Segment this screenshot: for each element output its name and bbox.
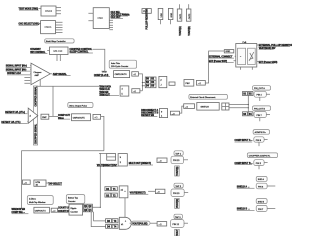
svg-text:COMP (1 of 2): COMP (1 of 2): [94, 75, 109, 77]
svg-text:DISCONNECT A: DISCONNECT A: [141, 109, 158, 112]
svg-text:PIN 7: PIN 7: [258, 209, 264, 211]
svg-text:↔: ↔: [240, 56, 242, 58]
svg-text:PIN 8: PIN 8: [256, 140, 262, 142]
svg-text:ACMPS IN+: ACMPS IN+: [255, 131, 267, 134]
svg-text:Multi-Tap Window: Multi-Tap Window: [29, 201, 46, 204]
svg-text:30ms: 30ms: [58, 118, 64, 120]
svg-text:EXT (Power GND): EXT (Power GND): [259, 62, 278, 64]
svg-text:CMP2/OUT5: CMP2/OUT5: [73, 117, 86, 119]
svg-text:2.54ms: 2.54ms: [29, 198, 36, 200]
svg-text:CMP/OUT4: CMP/OUT4: [35, 211, 47, 213]
svg-text:TRIM OUT: TRIM OUT: [99, 94, 110, 96]
svg-text:EXTERNAL PULL-UP RESISTOR: EXTERNAL PULL-UP RESISTOR: [259, 44, 292, 47]
svg-text:PxB: PxB: [243, 42, 247, 44]
svg-text:100-Cycle Counter: 100-Cycle Counter: [111, 65, 129, 68]
svg-text:OUT1: OUT1: [180, 13, 182, 19]
svg-text:OSC: OSC: [98, 16, 104, 20]
svg-text:SHD B: SHD B: [258, 201, 265, 203]
svg-text:VEXT(MAX) 30V: VEXT(MAX) 30V: [259, 47, 276, 50]
svg-text:WINDOW EN: WINDOW EN: [12, 209, 26, 211]
svg-text:CMP: CMP: [42, 117, 47, 119]
svg-text:COMP OUT: COMP OUT: [58, 115, 71, 117]
svg-text:TAP 3: TAP 3: [175, 216, 181, 219]
svg-text:VOUT(A): VOUT(A): [179, 26, 182, 36]
svg-text:GND: GND: [171, 12, 173, 17]
svg-text:Counter: Counter: [68, 200, 76, 203]
svg-text:VOUT(PULSE): VOUT(PULSE): [132, 223, 147, 225]
svg-text:External Circuit Disconnect.: External Circuit Disconnect.: [190, 96, 216, 99]
svg-text:AMP SIGNAL: AMP SIGNAL: [53, 73, 68, 76]
svg-text:MS Ctrl: MS Ctrl: [54, 49, 63, 53]
svg-text:VOUT(DIRECT)TAP: VOUT(DIRECT)TAP: [97, 164, 118, 167]
svg-text:COUNT DN: COUNT DN: [58, 211, 70, 213]
svg-text:Auto Trim: Auto Trim: [111, 62, 120, 65]
svg-text:TAP 1: TAP 1: [175, 152, 181, 155]
svg-text:PIN_OUT B: PIN_OUT B: [254, 108, 266, 110]
svg-text:CLK OUT: CLK OUT: [111, 17, 122, 19]
svg-text:CMP1/OUT6: CMP1/OUT6: [115, 74, 128, 76]
svg-text:VDD: VDD: [161, 13, 163, 18]
svg-text:TAP SELECT: TAP SELECT: [48, 182, 62, 185]
svg-text:J: J: [161, 85, 162, 87]
svg-text:CHOPPER SIGNAL: CHOPPER SIGNAL: [35, 86, 38, 107]
svg-text:CHOPPER SIGNAL: CHOPPER SIGNAL: [35, 123, 38, 144]
svg-text:AMP: AMP: [35, 74, 40, 77]
svg-text:Stabi./Stop Controller: Stabi./Stop Controller: [46, 40, 66, 43]
svg-text:OSC1: OSC1: [45, 25, 53, 29]
svg-text:STANDBY: STANDBY: [30, 48, 41, 51]
svg-text:Button Tap: Button Tap: [68, 196, 79, 199]
svg-text:PIN 12: PIN 12: [173, 224, 180, 226]
svg-text:PIN 15: PIN 15: [173, 160, 180, 162]
svg-text:HTM: HTM: [36, 182, 41, 184]
svg-text:SHD A: SHD A: [258, 178, 265, 181]
svg-text:VOUT(2): VOUT(2): [177, 199, 179, 208]
svg-text:TRIM: TRIM: [102, 72, 107, 74]
svg-text:COUNT UP: COUNT UP: [58, 207, 70, 209]
svg-text:PULLUP RESISTOR: PULLUP RESISTOR: [146, 8, 148, 29]
svg-text:DETECT EN: DETECT EN: [141, 115, 154, 117]
svg-text:Chopper: Chopper: [34, 71, 42, 74]
svg-text:GND: GND: [226, 51, 231, 53]
svg-text:30ms Output Pulse: 30ms Output Pulse: [69, 104, 88, 107]
svg-text:TRIM DATA: TRIM DATA: [99, 86, 111, 89]
svg-text:PIN 4: PIN 4: [257, 95, 263, 97]
svg-text:VOUT(1): VOUT(1): [177, 166, 179, 175]
svg-text:COMP INPUT A→: COMP INPUT A→: [235, 139, 253, 142]
svg-text:PIN 15: PIN 15: [173, 193, 180, 195]
svg-text:Counter: Counter: [71, 210, 79, 213]
svg-text:OSC2: OSC2: [45, 9, 53, 13]
svg-text:Ripple: Ripple: [71, 208, 78, 210]
svg-text:VOUT: VOUT: [177, 229, 179, 236]
svg-text:PIN_OUT A: PIN_OUT A: [254, 87, 265, 90]
svg-text:SWITCH: SWITCH: [201, 107, 210, 109]
svg-text:PIN 7: PIN 7: [257, 115, 263, 117]
svg-text:CHOPPER ACMPS IN-: CHOPPER ACMPS IN-: [249, 154, 271, 157]
svg-text:SHIELD A →: SHIELD A →: [237, 185, 250, 188]
svg-text:PIN 2: PIN 2: [256, 163, 262, 165]
svg-text:VOUT(B): VOUT(B): [189, 26, 191, 36]
svg-text:OUT2: OUT2: [189, 13, 191, 19]
svg-text:P&V: P&V: [186, 83, 191, 85]
svg-text:TAP 2: TAP 2: [175, 185, 181, 188]
svg-text:PIN 6: PIN 6: [258, 186, 264, 188]
